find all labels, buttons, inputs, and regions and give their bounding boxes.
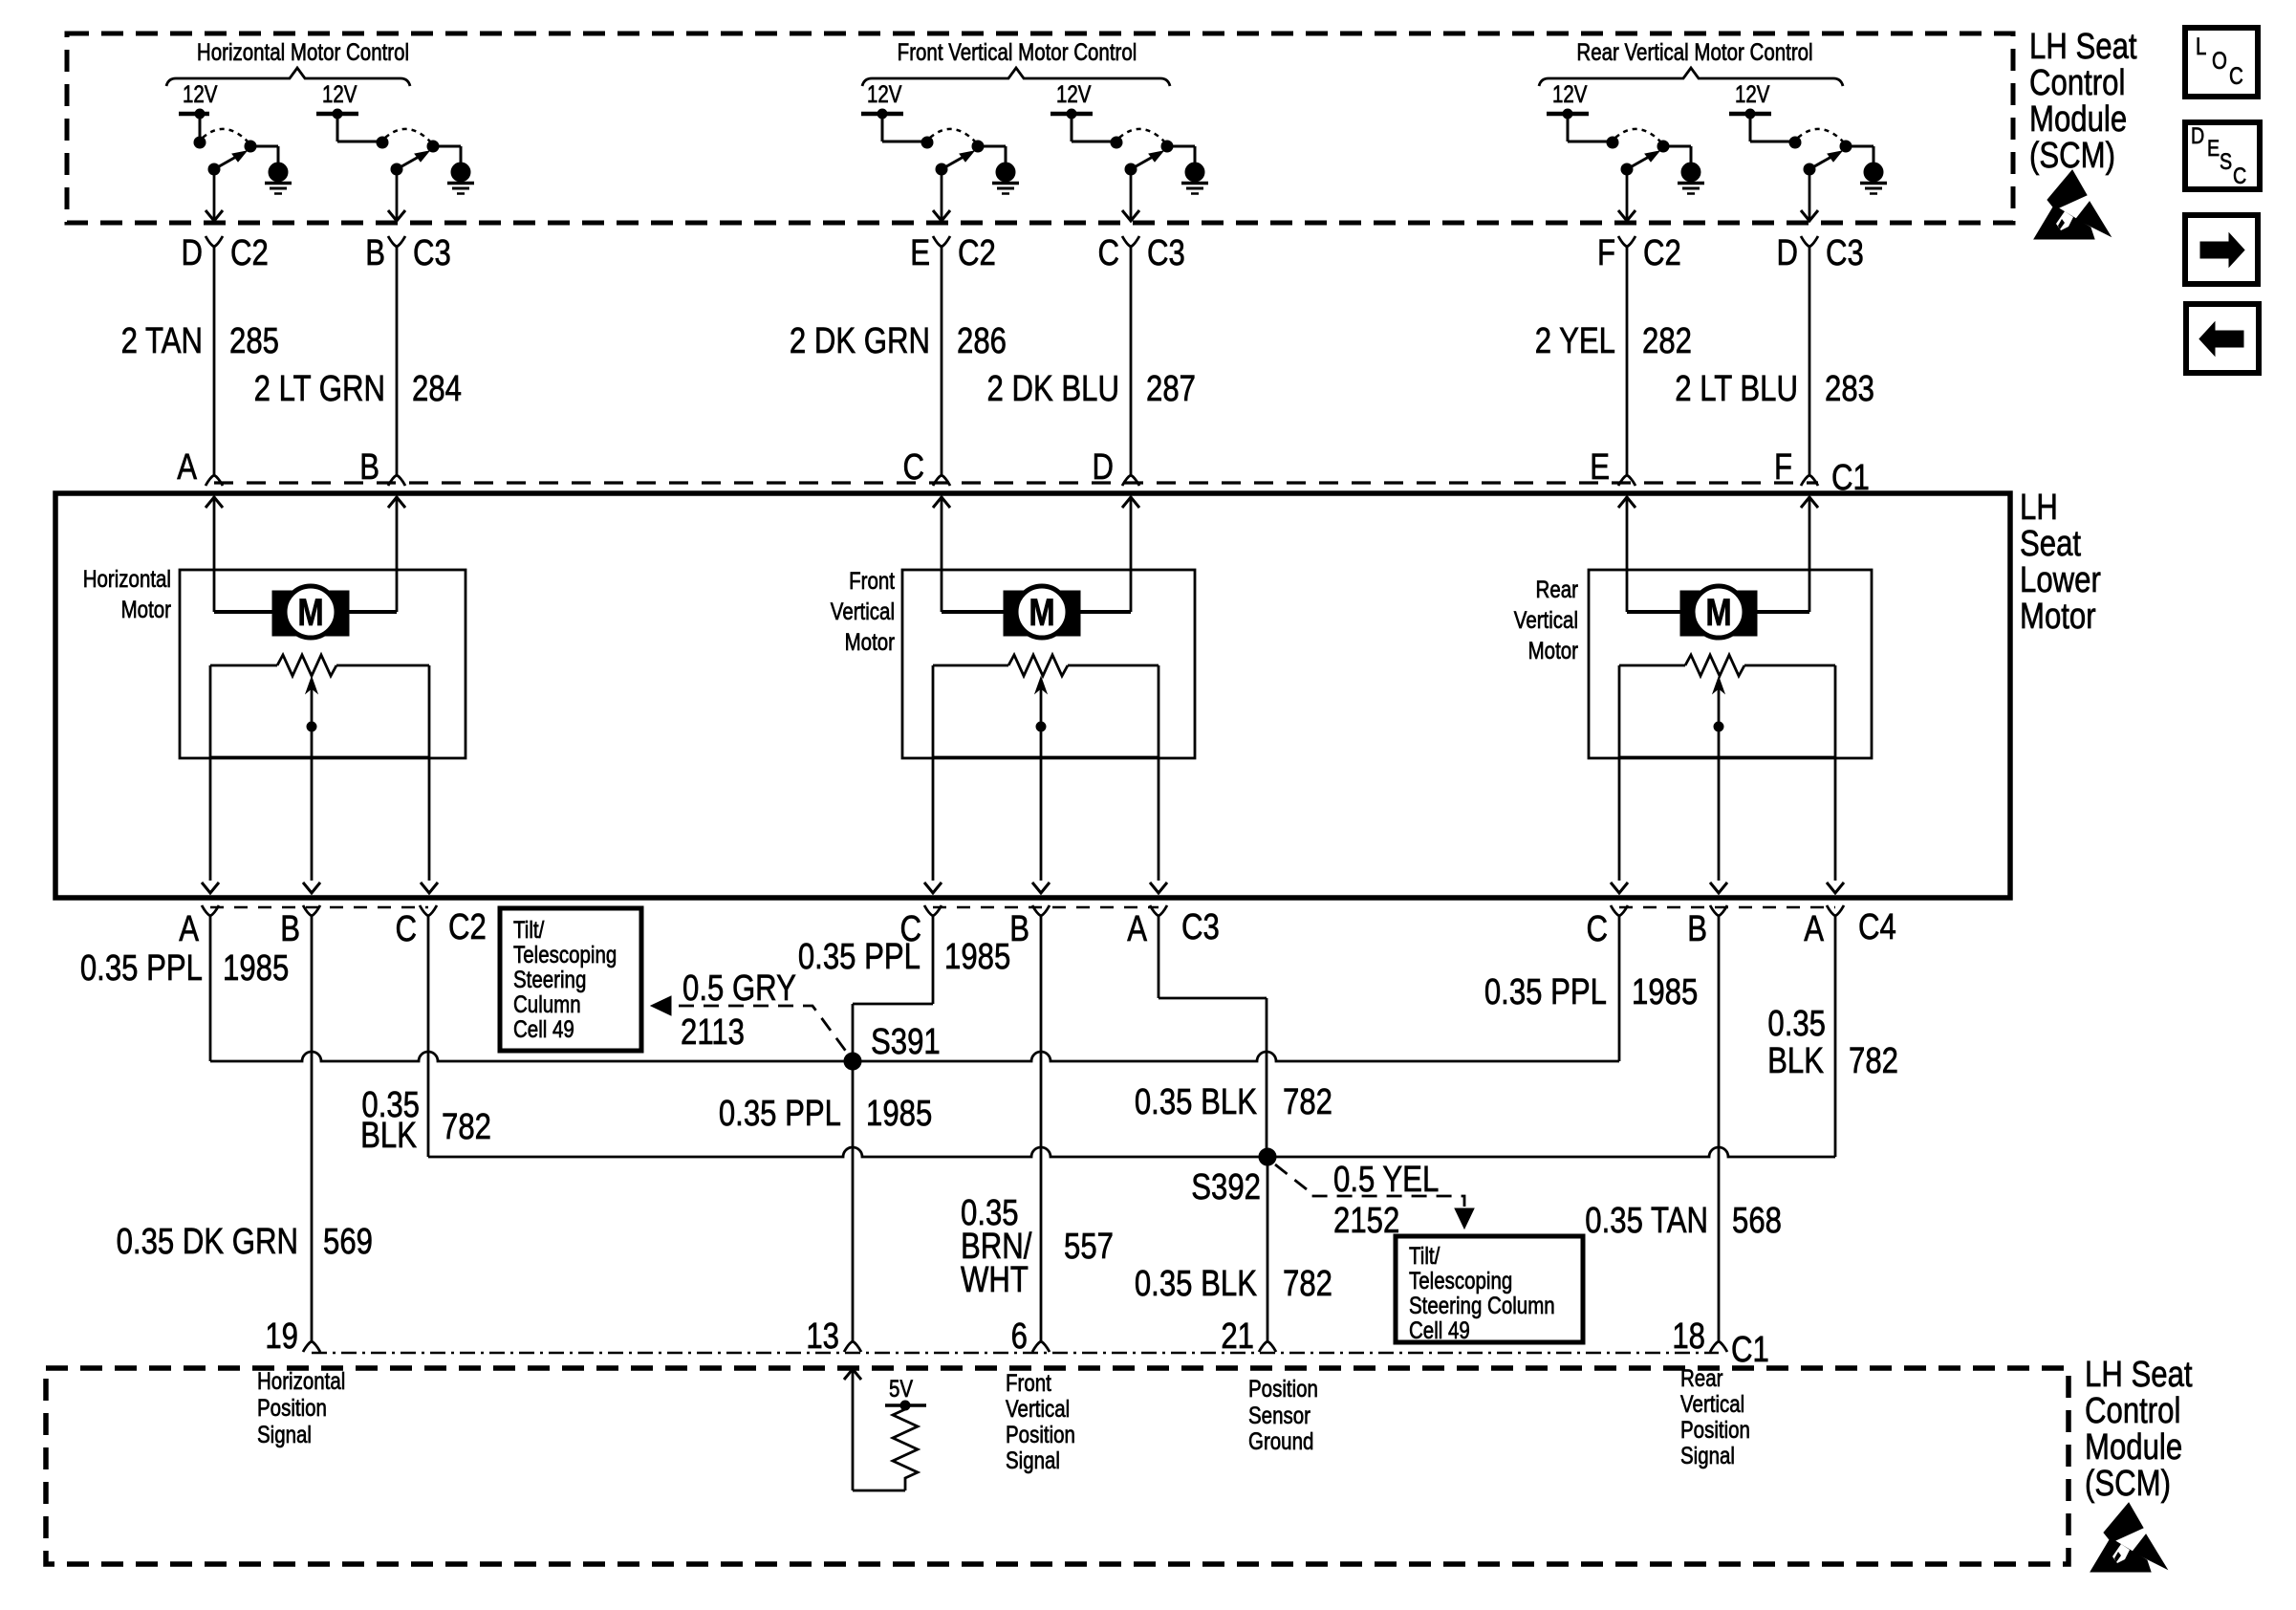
svg-text:Culumn: Culumn [513, 990, 581, 1017]
dashed pin interface line (motor connector C4) [1619, 906, 1835, 909]
connector pin E of C2 (SCM upper) [910, 233, 996, 273]
motor M horizontal with position sensor [180, 496, 466, 893]
svg-text:C: C [902, 447, 924, 488]
Tilt/Telescoping Steering Column Cell 49 box (right) [1396, 1236, 1583, 1343]
dashed pin interface line (motor connector C2) [210, 906, 428, 909]
svg-text:12V: 12V [322, 80, 357, 107]
svg-text:0.35 BLK: 0.35 BLK [1135, 1264, 1257, 1304]
icon box LOC [2185, 28, 2258, 97]
svg-text:18: 18 [1672, 1316, 1705, 1357]
svg-text:Control: Control [2029, 63, 2125, 103]
svg-text:Motor: Motor [121, 596, 172, 622]
svg-text:C2: C2 [1643, 233, 1681, 273]
svg-text:E: E [1590, 447, 1610, 488]
svg-text:Vertical: Vertical [831, 598, 895, 624]
connector pin D of C3 (SCM upper) [1776, 233, 1863, 273]
svg-text:C2: C2 [958, 233, 996, 273]
svg-text:13: 13 [806, 1316, 839, 1357]
ground [265, 163, 292, 194]
svg-text:Front Vertical Motor Control: Front Vertical Motor Control [898, 38, 1137, 65]
switch front vertical down (12V) [1051, 80, 1195, 221]
svg-text:2 LT BLU: 2 LT BLU [1675, 369, 1798, 409]
svg-text:Front: Front [849, 567, 895, 594]
switch horizontal rev (12V) [316, 80, 461, 221]
svg-text:C2: C2 [230, 233, 269, 273]
svg-text:19: 19 [265, 1316, 298, 1357]
svg-text:Signal: Signal [1006, 1447, 1060, 1473]
svg-text:0.35 BLK: 0.35 BLK [1135, 1082, 1257, 1122]
svg-text:Lower: Lower [2020, 560, 2101, 600]
connector pin C (LH seat lower motor C1) [902, 447, 950, 488]
LH Seat Control Module (SCM) upper dashed box [67, 33, 2013, 223]
svg-text:D: D [1092, 447, 1114, 488]
svg-text:Position: Position [257, 1394, 327, 1421]
svg-text:Motor: Motor [845, 628, 896, 655]
ground [1860, 163, 1887, 194]
svg-text:D: D [181, 233, 203, 273]
wire 2 YEL 282 [1535, 247, 1692, 475]
connector pin A of C3 (motor bottom) [1127, 905, 1167, 949]
svg-text:C3: C3 [413, 233, 451, 273]
svg-text:Front: Front [1006, 1369, 1051, 1396]
connector pin 21 (SCM lower) [1221, 1316, 1276, 1357]
svg-text:Position: Position [1006, 1421, 1075, 1447]
svg-text:Telescoping: Telescoping [1409, 1267, 1512, 1294]
label 0.35 BLK 782 (front A) [1135, 1082, 1332, 1122]
svg-text:M: M [1029, 591, 1054, 634]
svg-text:B: B [280, 909, 300, 949]
label LH Seat Control Module (SCM) lower [2085, 1355, 2193, 1504]
wire 0.35 BLK 782 ground bus (S392) [428, 916, 1835, 1157]
5V pull-up resistor circuit (pin 13) [844, 1369, 926, 1490]
icon box DESC [2185, 122, 2260, 189]
ground [447, 163, 474, 194]
svg-text:Steering: Steering [513, 966, 586, 992]
svg-text:568: 568 [1732, 1201, 1782, 1241]
label Front Vertical Position Signal [1006, 1369, 1075, 1473]
svg-text:Rear: Rear [1536, 576, 1579, 602]
icon box arrow right [2185, 215, 2258, 284]
svg-text:F: F [1774, 447, 1792, 488]
LH Seat Control Module (SCM) lower dashed box [46, 1368, 2069, 1564]
connector pin D of C2 (SCM upper) [181, 233, 268, 273]
svg-text:1985: 1985 [223, 948, 289, 989]
svg-text:C2: C2 [448, 907, 487, 947]
label 0.35 BLK 782 (rear A) [1767, 1004, 1898, 1081]
svg-text:A: A [1127, 909, 1148, 949]
label LH Seat Lower Motor [2020, 488, 2101, 637]
svg-text:0.35 PPL: 0.35 PPL [80, 948, 203, 989]
svg-text:S392: S392 [1191, 1167, 1261, 1207]
svg-text:D: D [1776, 233, 1798, 273]
wire 0.35 DK GRN 569 (horizontal position signal) [117, 916, 373, 1341]
svg-text:L: L [2196, 33, 2206, 59]
svg-text:M: M [297, 591, 323, 634]
wire 0.35 TAN 568 (rear vertical position signal) [1585, 916, 1782, 1341]
svg-text:1985: 1985 [866, 1094, 932, 1134]
dashed pin interface line (motor connector C3) [933, 906, 1159, 909]
svg-text:C: C [1586, 909, 1608, 949]
svg-text:0.35 TAN: 0.35 TAN [1585, 1201, 1708, 1241]
svg-text:0.35 DK GRN: 0.35 DK GRN [117, 1222, 298, 1262]
switch horizontal fwd (12V) [179, 80, 278, 221]
svg-text:WHT: WHT [961, 1260, 1029, 1300]
svg-text:M: M [1705, 591, 1731, 634]
connector pin 6 (SCM lower) [1011, 1316, 1050, 1357]
svg-text:BLK: BLK [1767, 1041, 1824, 1081]
svg-text:Vertical: Vertical [1680, 1390, 1744, 1417]
label Horizontal Position Signal [257, 1367, 345, 1447]
svg-text:Tilt/: Tilt/ [1409, 1242, 1440, 1269]
dashed pin interface line (motor connector top) [214, 481, 1818, 484]
svg-text:LH Seat: LH Seat [2085, 1355, 2193, 1395]
svg-text:12V: 12V [867, 80, 902, 107]
svg-text:A: A [1804, 909, 1825, 949]
svg-text:Horizontal: Horizontal [257, 1367, 345, 1394]
svg-text:287: 287 [1146, 369, 1196, 409]
ground [1181, 163, 1208, 194]
dashed wire 0.5 YEL 2152 to steering column [1275, 1160, 1474, 1241]
svg-text:B: B [1687, 909, 1707, 949]
connector pin B of C4 (motor bottom) [1687, 905, 1727, 949]
LH Seat Lower Motor box [55, 493, 2010, 898]
wire 2 DK GRN 286 [790, 247, 1007, 475]
connector pin A of C4 (motor bottom) [1804, 905, 1844, 949]
svg-text:Telescoping: Telescoping [513, 941, 617, 968]
svg-text:782: 782 [442, 1107, 491, 1147]
svg-text:1985: 1985 [944, 937, 1010, 977]
svg-text:Control: Control [2085, 1391, 2180, 1431]
wire 0.35 BLK 782 (front A to S392) [1159, 916, 1267, 1157]
svg-text:B: B [365, 233, 385, 273]
svg-text:Rear Vertical Motor Control: Rear Vertical Motor Control [1576, 38, 1812, 65]
connector pin B of C2 (motor bottom) [280, 905, 320, 949]
wire 2 TAN 285 [121, 247, 279, 475]
svg-text:2 TAN: 2 TAN [121, 321, 203, 361]
svg-text:Horizontal: Horizontal [83, 565, 171, 592]
ESD susceptibility symbol upper [2034, 170, 2111, 239]
svg-text:0.35 PPL: 0.35 PPL [798, 937, 921, 977]
svg-text:F: F [1597, 233, 1615, 273]
svg-text:12V: 12V [1735, 80, 1770, 107]
svg-text:0.35: 0.35 [1767, 1004, 1826, 1044]
svg-text:12V: 12V [1056, 80, 1092, 107]
svg-text:2113: 2113 [681, 1012, 745, 1053]
svg-text:A: A [177, 447, 198, 488]
ESD susceptibility symbol lower [2090, 1503, 2167, 1572]
svg-text:Vertical: Vertical [1006, 1395, 1070, 1422]
icon box arrow left [2186, 304, 2259, 373]
switch rear vertical down (12V) [1729, 80, 1874, 221]
label 0.35 PPL 1985 (S391 to pin 13) [719, 1094, 932, 1134]
connector pin A (LH seat lower motor C1) [177, 447, 223, 488]
ground [992, 163, 1019, 194]
svg-text:557: 557 [1064, 1227, 1114, 1267]
label 0.35 PPL 1985 (front C) [798, 937, 1010, 977]
svg-text:5V: 5V [889, 1375, 914, 1402]
svg-text:Cell 49: Cell 49 [1409, 1316, 1470, 1343]
wire 0.35 PPL 1985 (front C to S391 to pin 13) [853, 916, 933, 1341]
svg-text:782: 782 [1849, 1041, 1898, 1081]
svg-text:2 DK GRN: 2 DK GRN [790, 321, 930, 361]
svg-text:12V: 12V [183, 80, 218, 107]
label LH Seat Control Module (SCM) upper [2029, 27, 2137, 176]
svg-text:Position: Position [1680, 1416, 1750, 1443]
label 0.35 BLK 782 (pin C horizontal) [360, 1085, 491, 1156]
connector pin F (LH seat lower motor C1) [1774, 447, 1818, 488]
splice S392 [1259, 1148, 1276, 1165]
svg-text:282: 282 [1642, 321, 1692, 361]
connector pin C of C3 (motor bottom) [899, 905, 942, 949]
dashed pin interface line (SCM lower connector) [312, 1352, 1719, 1355]
svg-text:C: C [1097, 233, 1119, 273]
brace rear vertical motor control [1539, 68, 1843, 86]
label 0.35 PPL 1985 (rear C) [1484, 972, 1698, 1012]
svg-text:C1: C1 [1731, 1330, 1769, 1370]
svg-text:C3: C3 [1181, 907, 1220, 947]
label 0.35 PPL 1985 (pin A horizontal) [80, 948, 289, 989]
svg-text:6: 6 [1011, 1316, 1028, 1357]
svg-text:2 DK BLU: 2 DK BLU [986, 369, 1119, 409]
svg-text:Ground: Ground [1248, 1427, 1313, 1454]
svg-text:B: B [359, 447, 379, 488]
svg-text:S: S [2220, 148, 2232, 174]
svg-text:12V: 12V [1552, 80, 1588, 107]
svg-text:Rear: Rear [1680, 1364, 1723, 1391]
svg-text:0.5 YEL: 0.5 YEL [1333, 1160, 1439, 1200]
svg-text:Vertical: Vertical [1514, 606, 1578, 633]
connector pin D (LH seat lower motor C1) [1092, 447, 1139, 488]
svg-text:C3: C3 [1147, 233, 1185, 273]
connector pin C of C2 (motor bottom) [395, 905, 437, 949]
connector pin C of C3 (SCM upper) [1097, 233, 1184, 273]
svg-text:21: 21 [1221, 1316, 1254, 1357]
svg-text:C: C [2229, 62, 2243, 89]
svg-text:0.35 PPL: 0.35 PPL [1484, 972, 1607, 1012]
svg-text:Module: Module [2085, 1427, 2182, 1468]
connector pin B of C3 (motor bottom) [1009, 905, 1050, 949]
svg-text:1985: 1985 [1632, 972, 1698, 1012]
brace horizontal motor control [166, 68, 410, 86]
svg-text:C: C [2233, 163, 2246, 188]
svg-text:(SCM): (SCM) [2085, 1464, 2171, 1504]
svg-text:C3: C3 [1826, 233, 1864, 273]
svg-text:782: 782 [1283, 1082, 1332, 1122]
wire 2 LT GRN 284 [254, 247, 462, 475]
wire 2 DK BLU 287 [986, 247, 1195, 475]
svg-text:286: 286 [957, 321, 1007, 361]
motor M rear vertical with position sensor [1589, 496, 1872, 893]
svg-text:B: B [1009, 909, 1029, 949]
connector pin B of C3 (SCM upper) [365, 233, 451, 273]
ground [1678, 163, 1704, 194]
connector pin A of C2 (motor bottom) [179, 905, 219, 949]
label Rear Vertical Motor [1514, 576, 1579, 664]
svg-text:0.35 PPL: 0.35 PPL [719, 1094, 841, 1134]
dashed wire 0.5 GRY 2113 to steering column [651, 968, 850, 1056]
svg-text:285: 285 [229, 321, 279, 361]
svg-text:Module: Module [2029, 99, 2127, 140]
wire 2 LT BLU 283 [1675, 247, 1874, 475]
connector pin 18 (SCM lower) [1672, 1316, 1727, 1357]
connector pin 19 (SCM lower) [265, 1316, 320, 1357]
connector pin C of C4 (motor bottom) [1586, 905, 1628, 949]
svg-text:E: E [2207, 135, 2220, 161]
connector pin F of C2 (SCM upper) [1597, 233, 1681, 273]
wire 0.35 BRN/WHT 557 (front vertical position signal) [961, 916, 1114, 1341]
wire 0.35 BLK 782 (S392 to pin 21) [1135, 1157, 1332, 1341]
svg-text:Motor: Motor [2020, 597, 2096, 637]
svg-text:284: 284 [412, 369, 462, 409]
svg-text:Signal: Signal [1680, 1442, 1735, 1469]
svg-text:O: O [2212, 47, 2227, 74]
switch rear vertical up (12V) [1547, 80, 1691, 221]
svg-text:Motor: Motor [1528, 637, 1579, 664]
svg-text:LH Seat: LH Seat [2029, 27, 2137, 67]
svg-text:D: D [2191, 122, 2204, 148]
label Position Sensor Ground [1248, 1375, 1318, 1454]
svg-text:S391: S391 [871, 1022, 941, 1062]
svg-text:569: 569 [323, 1222, 373, 1262]
svg-text:Sensor: Sensor [1248, 1402, 1310, 1428]
wire 0.35 PPL 1985 bus (S391) [210, 916, 1619, 1061]
svg-text:Steering Column: Steering Column [1409, 1292, 1555, 1318]
svg-text:0.5 GRY: 0.5 GRY [682, 968, 796, 1009]
svg-text:C4: C4 [1858, 907, 1896, 947]
Tilt/Telescoping Steering Culumn Cell 49 box (left) [500, 908, 641, 1051]
svg-text:A: A [179, 909, 200, 949]
svg-text:Position: Position [1248, 1375, 1318, 1402]
svg-text:BLK: BLK [360, 1116, 417, 1156]
svg-text:LH: LH [2020, 488, 2058, 528]
svg-text:Signal: Signal [257, 1421, 312, 1447]
label Front Vertical Motor [831, 567, 896, 655]
splice S391 [844, 1053, 861, 1070]
label Rear Vertical Position Signal [1680, 1364, 1750, 1469]
connector pin 13 (SCM lower) [806, 1316, 861, 1357]
svg-text:C: C [395, 909, 417, 949]
brace front vertical motor control [862, 68, 1170, 86]
switch front vertical up (12V) [861, 80, 1006, 221]
connector pin B (LH seat lower motor C1) [359, 447, 405, 488]
svg-text:E: E [910, 233, 930, 273]
svg-text:2 YEL: 2 YEL [1535, 321, 1615, 361]
svg-text:283: 283 [1825, 369, 1874, 409]
motor M front vertical with position sensor [902, 496, 1195, 893]
svg-text:Horizontal Motor Control: Horizontal Motor Control [197, 38, 409, 65]
svg-text:Tilt/: Tilt/ [513, 916, 545, 943]
svg-text:2 LT GRN: 2 LT GRN [254, 369, 385, 409]
svg-text:Cell 49: Cell 49 [513, 1015, 574, 1042]
svg-text:782: 782 [1283, 1264, 1332, 1304]
svg-text:2152: 2152 [1333, 1201, 1399, 1241]
svg-text:Seat: Seat [2020, 524, 2081, 564]
label Horizontal Motor [83, 565, 172, 622]
connector pin E (LH seat lower motor C1) [1590, 447, 1635, 488]
